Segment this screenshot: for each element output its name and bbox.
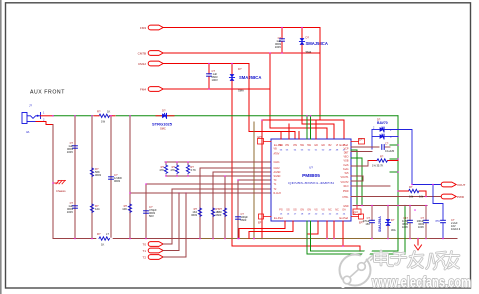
diode D? BAV70 [372,118,412,185]
wire IC bottom pin path 1 [239,221,285,239]
svg-text:10k: 10k [419,195,424,199]
svg-text:R?: R? [409,185,413,189]
svg-text:EP?: EP? [258,136,263,139]
svg-text:VIN: VIN [293,144,297,147]
svg-text:3?C: 3?C [435,219,440,223]
wire bottom maroon bus [53,238,200,240]
svg-text:NC: NC [328,209,332,212]
svg-text:www.elecfans.com: www.elecfans.com [371,275,471,291]
resistor R? col130 [122,204,131,212]
svg-text:SGND: SGND [274,175,281,178]
wire green horiz stub1 [390,144,398,146]
svg-text:3A: 3A [26,130,30,134]
node EP? box right [353,206,361,215]
svg-text:SMA: SMA [306,50,312,54]
wire CM7B net horizontal [163,52,320,54]
svg-text:FM4: FM4 [140,88,146,92]
resistor R? 10k [397,185,427,199]
wire IC bottom pin path 6 to sense net [342,221,344,246]
wire T2 [163,193,186,257]
wire bus L8 [130,192,271,194]
svg-text:5x5: 5x5 [345,172,350,175]
capacitor C? col75 lower [67,201,78,214]
svg-text:GND: GND [343,205,349,208]
wire long vertical x232 from FM4 down to bottom net [232,89,360,251]
svg-text:D?: D? [238,67,242,71]
svg-text:SMC: SMC [160,127,166,131]
svg-text:SMA: SMA [238,89,244,93]
wire maroon column x146 partial [145,184,147,239]
svg-text:16V: 16V [365,222,370,226]
wire bus L3 [213,172,271,239]
ground red arrow [415,238,422,250]
svg-text:1K: 1K [101,243,104,247]
capacitor C? 470uF [363,205,375,240]
svg-text:1% 35.7K: 1% 35.7K [372,164,384,168]
pad EP3 [258,214,271,225]
wire T0 [163,189,172,244]
resistor R? on bottom bus [97,232,112,247]
wire brown vertical [253,122,255,239]
capacitor C1? [402,205,412,240]
svg-text:0603: 0603 [241,218,247,222]
wire maroon VOUT1 stub [351,175,363,177]
node T2 flag [142,255,163,260]
wire FM4 net horizontal [163,88,270,90]
svg-text:VOUT2: VOUT2 [341,181,350,184]
wire red vertical x262 [261,120,263,239]
node CM7B flag [138,51,163,56]
wire vertical x320 from FM3 down to IC [320,28,344,140]
node VOUT flag [441,182,465,187]
svg-text:100V: 100V [67,210,73,214]
wire green stub to IC top 1 [306,116,308,139]
svg-text:CLD2: CLD2 [274,167,281,170]
wire CM12 net horizontal [163,63,249,65]
wire T1 [163,193,179,251]
svg-text:RLO: RLO [344,185,349,188]
svg-text:56K: 56K [217,210,222,214]
svg-text:Ex-Pad: Ex-Pad [339,216,348,220]
capacitor C7 group1 [275,27,285,54]
svg-text:AGND: AGND [274,171,281,174]
svg-text:VCP: VCP [344,148,349,151]
capacitor C? 100uF [417,205,429,240]
resistor R? 35.7K [351,155,398,168]
resistor R? 47K pullup 2 [170,161,178,177]
wire green audio net [53,115,398,117]
resistor R? col213 [211,207,221,217]
pad EP4 [351,214,364,225]
wire vertical x270 down to IC [270,53,327,139]
wire bus L6 [146,183,271,185]
wire IC bottom pin path 2 [249,221,293,239]
node T0 flag [142,242,163,247]
svg-text:VEO: VEO [343,156,348,159]
svg-text:GD: GD [321,144,325,147]
svg-text:0603: 0603 [95,173,101,177]
wire green horiz stub3 [390,171,398,173]
wire maroon column x111 [110,116,112,239]
wire maroon column x130 [129,116,131,239]
svg-text:CM7B: CM7B [138,52,146,56]
wire bus L5 drop x238 [237,180,239,239]
svg-text:R?: R? [97,110,101,114]
capacitor C? col75 upper [67,141,78,154]
svg-text:SG: SG [293,209,297,212]
svg-text:GN: GN [300,209,304,212]
svg-text:T2: T2 [142,256,146,260]
wire vertical x302 from CM7B down to IC [302,53,334,139]
svg-text:C?: C? [385,142,389,146]
wire FM3 net horizontal [163,27,320,29]
svg-text:100V: 100V [212,78,218,82]
resistor R? col200 [191,207,201,217]
wire bus L4 [166,175,271,177]
elecfans logo circle [340,250,374,286]
wire IC bottom pin path 4 [326,221,328,239]
wire IC bottom pin path 5 [333,221,335,239]
wire maroon RLO long [351,185,390,187]
svg-text:GN: GN [307,209,311,212]
svg-text:PM8805: PM8805 [302,173,320,179]
capacitor C? group2 [207,63,218,90]
svg-text:100V: 100V [67,150,73,154]
wire maroon VOUT1/2 pair [351,151,372,153]
svg-text:10k: 10k [409,195,414,199]
connector J? audio jack [22,104,45,135]
wire maroon VOUT2 stub [351,176,363,181]
svg-text:SMAJ58A: SMAJ58A [378,216,382,232]
svg-text:D?: D? [306,36,310,40]
wire bav70 right blue [385,130,413,185]
svg-text:124: 124 [95,207,100,211]
svg-text:47K: 47K [170,168,175,172]
pad EP1 [258,136,272,144]
svg-text:0.1uF/R: 0.1uF/R [385,149,394,153]
wire bus L5 [238,179,271,181]
svg-text:0603: 0603 [114,179,120,183]
wire maroon column x92 [91,116,93,239]
svg-text:SG: SG [286,209,290,212]
svg-text:GA: GA [342,209,346,212]
wire jack sleeve red [36,122,53,125]
svg-text:CTRL: CTRL [342,196,349,199]
svg-text:KelG: KelG [343,168,348,171]
resistor R? col92 lower [90,204,100,212]
wire blue VOUT [412,184,441,186]
svg-text:GD: GD [314,144,318,147]
wire red stub IC top x299 [298,132,300,140]
svg-text:VB: VB [274,148,278,151]
wire IC bottom pin path 3 [307,221,318,239]
svg-text:4.7K: 4.7K [191,168,197,172]
svg-text:VIN: VIN [285,144,289,147]
resistor R? on green net [94,110,115,124]
capacitor C? col111 [109,173,123,183]
wire bottom brown net [200,238,430,240]
resistor R? 47K pullup 1 [159,161,167,177]
svg-text:VI: VI [336,144,339,147]
wire red stub IC top x316 [315,120,317,139]
wire bav70 left [372,129,380,131]
wire maroon column x75 [74,116,76,239]
svg-text:100V: 100V [402,225,408,229]
wire green main vertical [397,116,399,251]
svg-text:50V: 50V [149,214,154,218]
op-amp U1 body [271,139,351,221]
wire bus L4 drop x225 [224,176,226,239]
wire blue vertical x433 [433,185,443,220]
svg-text:PWD: PWD [343,190,349,193]
node FM4 flag [140,87,163,92]
wire green IC bottom 2 [311,221,399,251]
svg-text:47K: 47K [159,168,164,172]
svg-text:EP?: EP? [354,212,359,215]
wire bus L1 [165,161,271,163]
capacitor C? col146 [144,205,157,218]
wire green IC bottom 1 [307,206,405,255]
wire maroon rail y238 right [430,238,457,240]
svg-text:FM3: FM3 [140,26,146,30]
svg-text:VOB: VOB [343,160,348,163]
resistor R? col92 upper 56K [90,167,101,177]
wire maroon column x53 [52,125,54,239]
svg-text:R-AUX: R-AUX [274,192,282,195]
svg-text:Ex-Pad: Ex-Pad [274,216,283,220]
node CM12 flag [138,61,163,66]
resistor R? col225 [217,207,226,216]
svg-text:100V: 100V [275,45,281,49]
svg-text:VOUT1: VOUT1 [341,176,350,179]
svg-text:AT8V: AT8V [274,153,280,156]
wire vertical x249 from CM12 down to IC [249,64,295,140]
wire red stub IC top x289 [288,124,290,139]
svg-text:10K: 10K [122,207,127,211]
wire maroon PWD long [351,196,441,198]
pin labels top row [280,144,346,147]
node PWD flag [441,194,465,199]
svg-text:PWD: PWD [457,195,465,199]
svg-text:AUX FRONT: AUX FRONT [30,90,65,96]
svg-text:VS: VS [314,209,318,212]
pin labels bottom row [279,209,346,212]
svg-text:VS: VS [321,209,325,212]
svg-text:D?: D? [391,218,395,222]
node FM3 flag [140,25,163,30]
pad EP2 [351,139,365,145]
svg-text:T0: T0 [142,243,146,247]
svg-text:0603: 0603 [191,213,197,217]
svg-text:PG: PG [279,209,283,212]
svg-text:SMAJ58CA: SMAJ58CA [239,75,261,80]
svg-text:D?: D? [162,109,166,113]
wire green stub to IC top 2 [310,116,312,139]
watermark text dian zi fa shao you (stylized) [375,251,460,269]
svg-text:BAV70: BAV70 [377,121,388,125]
pin labels right column [341,148,350,209]
svg-text:U?: U? [309,166,313,170]
svg-text:R?: R? [97,232,101,236]
svg-text:KelS: KelS [343,164,348,167]
wire bus L7 [172,188,271,190]
chassis ground symbol [52,181,66,194]
wire bus L2 [200,168,271,239]
capacitor C? 0.1uF right [351,142,394,154]
svg-text:EP?: EP? [258,222,263,225]
svg-text:10x10.3: 10x10.3 [451,227,461,231]
wire maroon rail y206 [353,205,427,207]
wire red stub IC top x281 [280,132,282,140]
svg-text:DBT: DBT [344,152,349,155]
svg-text:30A: 30A [391,228,396,232]
svg-text:STRG1025: STRG1025 [152,122,173,127]
TVS diode SMAJ58A [378,205,396,240]
svg-text:NC: NC [335,209,339,212]
capacitor C? col238 [236,212,249,222]
svg-text:J?: J? [29,104,32,108]
svg-text:100V: 100V [418,225,424,229]
node T1 flag [142,248,163,253]
svg-text:EP?: EP? [359,139,364,142]
wire green horiz stub2 [390,158,398,160]
svg-text:SMAJ58CA: SMAJ58CA [306,41,328,46]
svg-text:1W: 1W [101,120,105,124]
wire red y120 left stub [262,119,320,121]
pin numbers top [280,150,346,152]
wire green stub KelG [351,158,362,206]
wire green stub KelS [351,150,357,206]
pin labels left column [274,148,282,196]
wire jack tip stub red [41,115,54,117]
svg-text:QFN56-8X8X1-4MPIN: QFN56-8X8X1-4MPIN [288,181,334,185]
svg-text:R?: R? [380,155,384,159]
diode D? STRG1025 on green net [152,109,174,131]
svg-text:VOUT: VOUT [457,183,466,187]
capacitor C? 2.2uF blue col443 [435,218,461,239]
svg-text:L?: L? [106,232,109,236]
TVS diode D? SMAJ58CA group2 [229,63,261,93]
resistor R? 4.7K pullup 3 [186,161,196,177]
svg-text:T1: T1 [142,249,146,253]
svg-text:CM12: CM12 [138,62,146,66]
svg-text:CLD1: CLD1 [274,161,281,164]
svg-text:1K: 1K [107,110,110,114]
svg-text:Chassis: Chassis [56,189,66,193]
screen edge artifacts [0,0,2,294]
TVS diode D? SMAJ58CA group1 [299,27,327,54]
